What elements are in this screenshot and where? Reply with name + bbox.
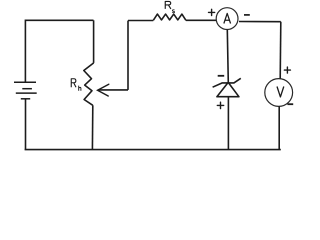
- ammeter A: [216, 8, 238, 30]
- plus sign voltmeter: [284, 67, 290, 73]
- wire rheostat top lead: [93, 20, 95, 63]
- wire rheostat bottom lead: [91, 105, 93, 149]
- resistor R_s zigzag: [153, 14, 186, 20]
- zener diode D1 triangle: [217, 82, 239, 96]
- zener diode D1 cathode bar: [213, 78, 241, 87]
- wiper arrowhead: [98, 84, 109, 96]
- minus sign ammeter: [244, 14, 250, 16]
- wiper arrow shaft: [98, 89, 128, 91]
- wire wiper branch vertical: [127, 21, 129, 90]
- wire right vertical to voltmeter: [279, 22, 282, 79]
- wire zener bottom lead: [227, 97, 229, 150]
- wire resistor to ammeter: [186, 19, 217, 21]
- plus sign ammeter: [209, 9, 215, 15]
- wire battery bottom lead: [25, 99, 27, 150]
- wire battery top lead: [24, 20, 26, 82]
- wire ammeter to top-right corner: [239, 21, 281, 23]
- wire ammeter bottom lead: [227, 30, 228, 83]
- label R_h: [71, 79, 81, 91]
- minus sign zener: [218, 75, 225, 77]
- wire corner to resistor: [128, 20, 153, 22]
- label R_s: [165, 1, 174, 12]
- wire top-left rail: [25, 19, 93, 21]
- rheostat R_h zigzag: [84, 63, 94, 105]
- minus sign voltmeter: [287, 103, 293, 105]
- voltmeter V: [265, 79, 293, 107]
- plus sign zener: [217, 102, 223, 108]
- wire voltmeter bottom lead: [278, 106, 280, 149]
- wire bottom rail: [25, 149, 281, 151]
- battery B1: [14, 82, 37, 99]
